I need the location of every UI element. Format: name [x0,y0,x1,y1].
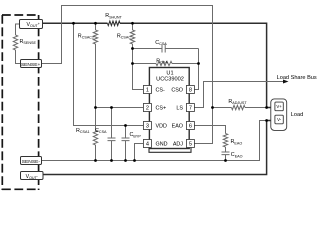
svg-text:Load: Load [291,112,303,118]
svg-text:4: 4 [146,142,149,148]
svg-text:1: 1 [146,88,149,94]
svg-text:V+: V+ [276,104,282,109]
svg-text:8: 8 [189,88,192,94]
svg-text:GND: GND [156,142,168,148]
svg-text:Load Share Bus: Load Share Bus [277,75,317,81]
svg-text:6: 6 [189,124,192,130]
svg-text:EAO: EAO [172,124,183,130]
svg-text:CS+: CS+ [156,106,167,112]
svg-text:SENSE-: SENSE- [22,159,41,165]
svg-text:LS: LS [176,106,183,112]
svg-text:V-: V- [277,117,282,122]
svg-text:ADJ: ADJ [173,142,183,148]
svg-text:CSO: CSO [171,88,183,94]
svg-text:VDD: VDD [156,124,167,130]
svg-text:2: 2 [146,106,149,112]
svg-text:7: 7 [189,106,192,112]
svg-text:5: 5 [189,142,192,148]
svg-text:CS-: CS- [156,88,165,94]
svg-text:3: 3 [146,124,149,130]
svg-text:UCC39002: UCC39002 [156,77,184,83]
svg-text:SENSE+: SENSE+ [21,62,41,68]
